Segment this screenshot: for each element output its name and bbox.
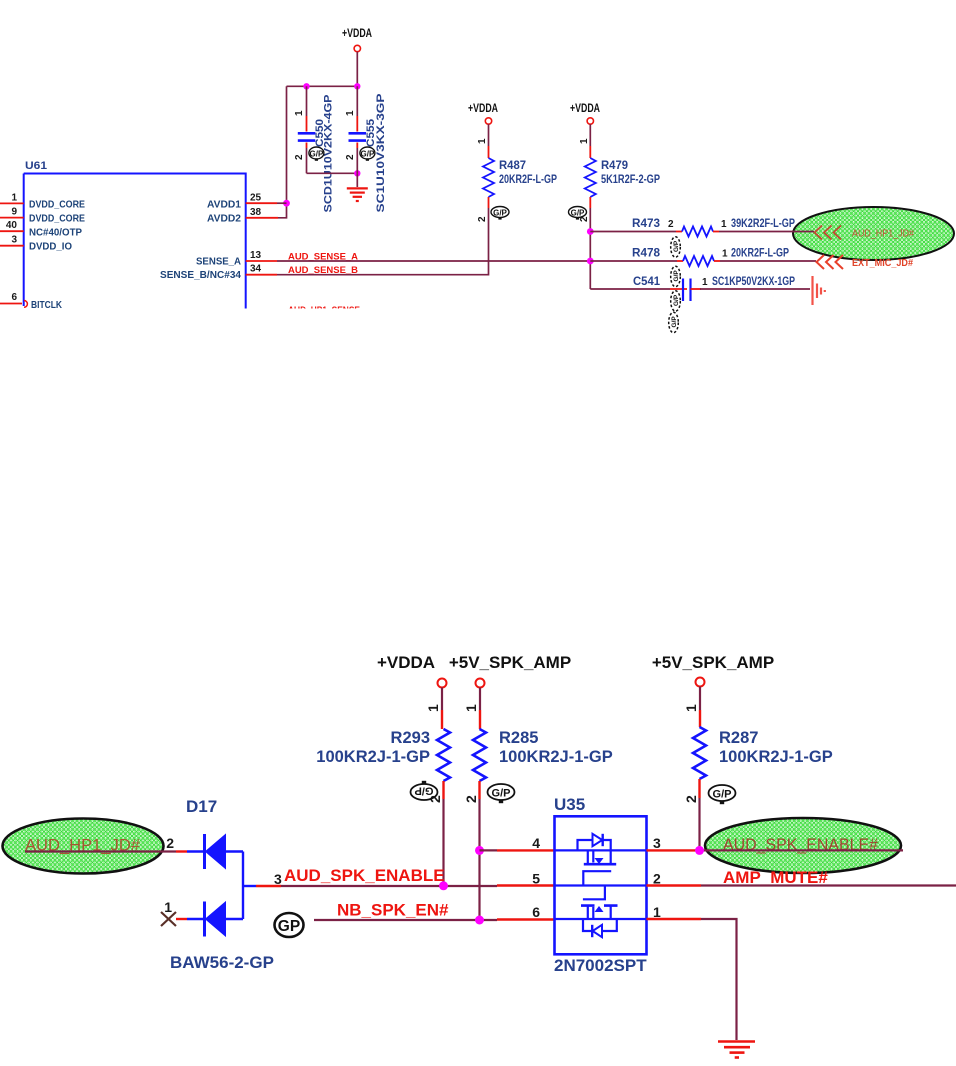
wire pin4 row: [480, 849, 498, 851]
U35 internal row lines: [555, 850, 647, 919]
node junction R285/NB_SPK_EN#: [475, 916, 484, 925]
svg-text:C541: C541: [633, 274, 660, 288]
resistor R487: [477, 124, 557, 222]
svg-text:34: 34: [250, 264, 262, 275]
pin 38 AVDD2: [207, 207, 278, 225]
transistor U35 2N7002SPT: [554, 795, 647, 975]
wire NB_SPK_EN# row: [314, 919, 497, 921]
svg-text:2: 2: [463, 795, 479, 803]
wire AUD_SPK_ENABLE row: [256, 885, 281, 887]
svg-text:+5V_SPK_AMP: +5V_SPK_AMP: [449, 653, 571, 672]
power +VDDA (R479): [570, 103, 600, 124]
svg-text:AUD_SPK_ENABLE: AUD_SPK_ENABLE: [284, 866, 445, 885]
GP dashed stamp 1: [671, 237, 681, 257]
svg-text:1: 1: [722, 249, 728, 260]
svg-text:R479: R479: [601, 158, 628, 172]
GP stamp R285: [488, 784, 515, 803]
svg-text:SC1KP50V2KX-1GP: SC1KP50V2KX-1GP: [712, 274, 795, 288]
wire R293 down: [442, 799, 444, 886]
svg-text:2: 2: [683, 795, 699, 803]
svg-text:G/P: G/P: [310, 150, 324, 159]
svg-text:9: 9: [11, 207, 17, 218]
pin 34 SENSE_B/NC#34: [160, 264, 277, 282]
svg-text:100KR2J-1-GP: 100KR2J-1-GP: [316, 748, 430, 766]
U35 bottom MOSFET Q-B: [581, 886, 618, 920]
pin 3 DVDD_IO: [0, 235, 72, 253]
wire SENSE_A row: [277, 260, 590, 262]
svg-text:3: 3: [274, 871, 282, 887]
resistor R293: [316, 688, 450, 804]
svg-text:+VDDA: +VDDA: [570, 103, 600, 115]
GP stamp R293: [411, 781, 438, 800]
power +VDDA (top, C555 rail): [342, 28, 372, 52]
svg-text:U61: U61: [25, 160, 47, 172]
svg-text:G/P: G/P: [673, 270, 680, 282]
power +VDDA (R487): [468, 103, 498, 124]
svg-text:U35: U35: [554, 795, 585, 814]
resistor R285: [463, 688, 613, 804]
node junction AVDD1: [283, 200, 290, 207]
svg-text:+VDDA: +VDDA: [377, 653, 435, 672]
svg-text:AVDD2: AVDD2: [207, 213, 241, 225]
GP dashed stamp 4: [669, 312, 679, 332]
svg-text:+5V_SPK_AMP: +5V_SPK_AMP: [652, 653, 774, 672]
svg-text:100KR2J-1-GP: 100KR2J-1-GP: [499, 748, 613, 766]
svg-text:G/P: G/P: [673, 294, 680, 306]
svg-text:13: 13: [250, 250, 262, 261]
GP stamp R287: [709, 785, 736, 804]
svg-text:DVDD_IO: DVDD_IO: [29, 241, 72, 253]
svg-text:R473: R473: [632, 216, 660, 230]
GP stamp C555: [360, 147, 375, 161]
wire AVDD2 jog: [278, 203, 287, 218]
svg-text:DVDD_CORE: DVDD_CORE: [29, 199, 85, 211]
svg-text:SC1U10V3KX-3GP: SC1U10V3KX-3GP: [375, 94, 387, 213]
power +5V_SPK_AMP (R285): [449, 653, 571, 688]
pin 1 DVDD_CORE: [0, 193, 85, 211]
svg-text:R285: R285: [499, 729, 538, 747]
U35 bottom body diode: [583, 919, 617, 937]
U35 top body diode: [578, 834, 611, 851]
svg-text:2: 2: [668, 219, 674, 230]
resistor R287: [683, 687, 833, 804]
wire pin2 row AMP_MUTE#: [647, 884, 702, 886]
capacitor C541: [590, 274, 810, 301]
svg-text:G/P: G/P: [361, 150, 375, 159]
svg-text:BAW56-2-GP: BAW56-2-GP: [170, 953, 274, 972]
wire +VDDA vertical to top rail: [356, 52, 358, 87]
svg-text:G/P: G/P: [671, 316, 678, 328]
svg-text:1: 1: [477, 138, 488, 144]
svg-text:1: 1: [164, 899, 172, 915]
pin 25 AVDD1: [207, 193, 287, 211]
op-amp U61 (codec chip, clipped): [24, 160, 246, 309]
ground sideways (C541): [813, 276, 825, 305]
svg-text:2: 2: [166, 835, 174, 851]
svg-text:SENSE_A: SENSE_A: [196, 256, 241, 268]
svg-text:2N7002SPT: 2N7002SPT: [554, 956, 647, 975]
svg-text:1: 1: [11, 193, 17, 204]
svg-text:G/P: G/P: [673, 240, 680, 252]
GP dashed stamp 3: [671, 291, 681, 311]
node junction top rail C555: [354, 83, 360, 89]
wire left vertical to AVDD1: [286, 86, 288, 203]
wire pin3 row: [647, 849, 696, 851]
wire R473 to port: [719, 231, 814, 233]
svg-text:DVDD_CORE: DVDD_CORE: [29, 213, 85, 225]
port chevrons AUD_HP1_JD#: [815, 226, 842, 240]
pin 1 D17 no-connect X: [161, 899, 187, 926]
svg-text:2: 2: [477, 216, 488, 222]
svg-text:1: 1: [463, 704, 479, 712]
svg-text:25: 25: [250, 193, 262, 204]
wire SENSE_B row to R487: [277, 208, 489, 275]
wire R479 vertical: [589, 208, 591, 289]
svg-text:G/P: G/P: [492, 788, 511, 800]
wire R287 down: [698, 798, 700, 850]
GP dashed stamp 2: [671, 266, 681, 286]
node junction R285/pin4: [475, 846, 484, 855]
svg-text:AUD_SENSE_A: AUD_SENSE_A: [288, 252, 359, 262]
svg-text:39K2R2F-L-GP: 39K2R2F-L-GP: [731, 216, 795, 230]
svg-text:20KR2F-L-GP: 20KR2F-L-GP: [499, 172, 557, 186]
svg-text:1: 1: [683, 704, 699, 712]
svg-text:NC#40/OTP: NC#40/OTP: [29, 227, 82, 239]
highlight ellipse AUD_HP1_JD# (top): [793, 207, 954, 260]
wire R478 to port: [720, 260, 816, 262]
node junction R287/pin3: [695, 846, 704, 855]
svg-text:4: 4: [532, 835, 540, 851]
wire R285 down: [478, 799, 480, 920]
svg-text:1: 1: [425, 704, 441, 712]
wire to ground: [356, 173, 358, 187]
pin 9 DVDD_CORE: [0, 207, 85, 225]
svg-text:+VDDA: +VDDA: [468, 103, 498, 115]
svg-text:EXT_MIC_JD#: EXT_MIC_JD#: [852, 257, 913, 269]
svg-text:AVDD1: AVDD1: [207, 199, 241, 211]
svg-text:100KR2J-1-GP: 100KR2J-1-GP: [719, 748, 833, 766]
svg-text:5: 5: [532, 871, 540, 887]
node junction R473 row: [587, 228, 594, 235]
node junction SENSE_A row: [587, 258, 594, 265]
wire AUD_HP1_JD# to D17 pin2: [25, 850, 176, 852]
svg-text:3: 3: [653, 835, 661, 851]
svg-text:2: 2: [294, 154, 305, 160]
svg-text:1: 1: [702, 277, 708, 288]
svg-text:GP: GP: [278, 918, 300, 935]
capacitor C555: [345, 86, 387, 212]
svg-text:1: 1: [721, 219, 727, 230]
diode D17: [170, 797, 274, 972]
wire bottom rail caps: [307, 172, 358, 174]
svg-text:40: 40: [6, 220, 18, 231]
svg-text:R487: R487: [499, 158, 526, 172]
wire pin1 row to ground: [647, 918, 702, 920]
GP circle symbol: [275, 913, 304, 937]
svg-text:NB_SPK_EN#: NB_SPK_EN#: [337, 901, 449, 920]
U35 top MOSFET Q-A: [583, 850, 616, 885]
svg-text:1: 1: [653, 904, 661, 920]
svg-text:6: 6: [11, 292, 17, 303]
ground (bottom): [718, 1042, 755, 1058]
resistor R478: [590, 246, 789, 267]
svg-text:1: 1: [294, 110, 305, 116]
node junction top rail C550: [303, 83, 309, 89]
power +5V_SPK_AMP (R287): [652, 653, 774, 687]
resistor R473: [590, 216, 795, 237]
svg-text:G/P: G/P: [571, 209, 585, 218]
svg-text:1: 1: [345, 110, 356, 116]
wire top rail: [287, 85, 358, 87]
svg-text:20KR2F-L-GP: 20KR2F-L-GP: [731, 246, 789, 260]
power +VDDA (R293): [377, 653, 447, 688]
svg-text:R478: R478: [632, 246, 660, 260]
svg-text:AUD_SENSE_B: AUD_SENSE_B: [288, 265, 359, 275]
clip mask top section bottom: [0, 309, 400, 329]
node junction bottom rail: [354, 170, 360, 176]
svg-text:6: 6: [532, 904, 540, 920]
svg-text:5K1R2F-2-GP: 5K1R2F-2-GP: [601, 172, 660, 186]
pin 6 BITCLK: [0, 292, 62, 311]
svg-text:1: 1: [579, 138, 590, 144]
ground (C555): [347, 188, 368, 201]
svg-text:AUD_HP1_JD#: AUD_HP1_JD#: [852, 228, 914, 240]
svg-text:SENSE_B/NC#34: SENSE_B/NC#34: [160, 269, 241, 281]
GP stamp C550: [309, 147, 324, 161]
resistor R479: [579, 124, 660, 222]
highlight ellipse AUD_SPK_ENABLE# (bottom right): [705, 818, 901, 873]
GP stamp R479: [569, 207, 587, 220]
svg-text:D17: D17: [186, 797, 217, 816]
svg-text:G/P: G/P: [493, 209, 507, 218]
svg-text:2: 2: [653, 871, 661, 887]
highlight ellipse AUD_HP1_JD# (bottom left): [3, 819, 164, 874]
svg-text:R293: R293: [391, 729, 430, 747]
svg-text:+VDDA: +VDDA: [342, 28, 372, 40]
svg-text:AMP_MUTE#: AMP_MUTE#: [723, 868, 828, 887]
node junction R293/AUD_SPK_ENABLE: [439, 881, 448, 890]
pin 40 NC#40/OTP: [0, 220, 82, 239]
capacitor C550: [294, 86, 335, 212]
svg-text:G/P: G/P: [415, 785, 434, 797]
svg-text:3: 3: [11, 235, 17, 246]
svg-text:38: 38: [250, 207, 262, 218]
svg-text:2: 2: [345, 154, 356, 160]
GP stamp R487: [491, 207, 509, 220]
svg-text:G/P: G/P: [713, 789, 732, 801]
port chevrons EXT_MIC_JD#: [817, 255, 844, 269]
pin 13 SENSE_A: [196, 250, 277, 268]
svg-text:R287: R287: [719, 729, 758, 747]
U35 pin numbers: [532, 835, 661, 920]
